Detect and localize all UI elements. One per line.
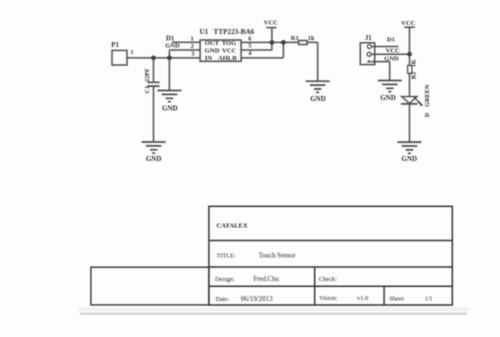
svg-text:GND: GND — [162, 104, 178, 112]
svg-text:06/19/2013: 06/19/2013 — [241, 295, 273, 303]
svg-text:1/1: 1/1 — [425, 295, 433, 302]
svg-text:1: 1 — [191, 35, 194, 42]
svg-text:v1.0: v1.0 — [357, 295, 368, 302]
svg-text:1: 1 — [130, 49, 133, 56]
svg-text:22PF: 22PF — [144, 68, 151, 82]
svg-text:IN: IN — [205, 55, 213, 62]
svg-text:GND: GND — [402, 155, 418, 163]
svg-text:J1: J1 — [365, 35, 372, 42]
svg-text:Sheet:: Sheet: — [389, 295, 405, 302]
svg-text:R1: R1 — [291, 35, 299, 42]
svg-text:R2: R2 — [411, 72, 418, 80]
svg-text:TITLE:: TITLE: — [216, 252, 236, 259]
svg-text:D: D — [424, 112, 431, 117]
svg-text:GND: GND — [310, 95, 326, 103]
svg-text:VCC: VCC — [222, 47, 237, 54]
svg-text:CATALEX: CATALEX — [216, 223, 247, 230]
svg-text:AHLB: AHLB — [218, 55, 237, 62]
svg-text:OUT: OUT — [205, 40, 220, 47]
svg-text:1K: 1K — [411, 59, 418, 67]
svg-text:P1: P1 — [111, 42, 119, 49]
svg-text:4: 4 — [248, 50, 252, 57]
svg-text:Date:: Date: — [216, 296, 230, 303]
svg-text:GND: GND — [146, 155, 162, 163]
svg-text:GND: GND — [380, 94, 396, 102]
svg-text:D1: D1 — [166, 35, 175, 42]
svg-text:VCC: VCC — [264, 20, 278, 27]
svg-text:Fred.Chu: Fred.Chu — [253, 276, 279, 283]
svg-text:VCC: VCC — [401, 20, 415, 27]
svg-text:U1: U1 — [200, 28, 209, 36]
svg-text:5: 5 — [248, 42, 252, 49]
svg-text:Vision:: Vision: — [319, 295, 338, 302]
svg-text:GND: GND — [165, 43, 180, 50]
svg-text:C1: C1 — [144, 86, 151, 94]
svg-text:Check:: Check: — [319, 276, 337, 283]
svg-text:GND: GND — [384, 55, 399, 62]
svg-text:TOG: TOG — [222, 40, 237, 47]
svg-text:D1: D1 — [387, 37, 395, 44]
svg-text:1k: 1k — [308, 35, 315, 42]
svg-text:2: 2 — [191, 43, 194, 50]
svg-text:VCC: VCC — [386, 48, 400, 55]
svg-text:Design:: Design: — [215, 276, 235, 283]
svg-text:Touch Sensor: Touch Sensor — [259, 252, 297, 259]
svg-text:3: 3 — [191, 51, 195, 58]
svg-text:GND: GND — [205, 47, 220, 54]
svg-text:GREEN: GREEN — [424, 84, 431, 107]
